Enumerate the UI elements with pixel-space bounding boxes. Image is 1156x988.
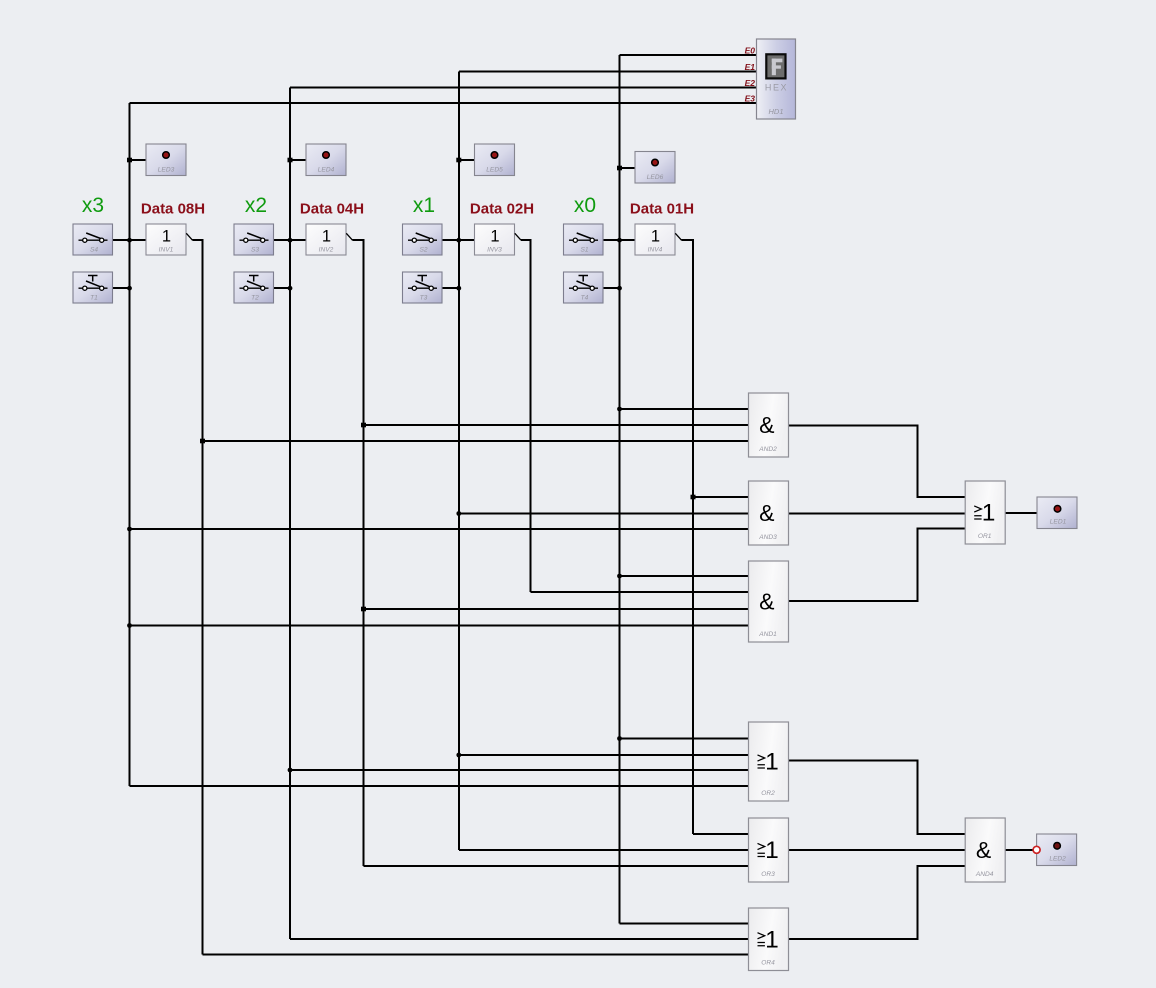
junction junction S4 pin: [127, 238, 132, 243]
wire net E1: [459, 71, 757, 73]
AND gate AND2: [749, 393, 789, 457]
wire x3 to AND1.4: [130, 625, 749, 627]
svg-text:AND4: AND4: [975, 871, 994, 878]
svg-text:LED2: LED2: [1049, 856, 1066, 863]
wire x0 to AND2.1: [620, 408, 749, 410]
wire bus x3: [129, 103, 131, 786]
switch S1: [564, 224, 604, 255]
junction x1/OR2: [456, 753, 461, 758]
wire OR2 out to AND4.1: [789, 761, 966, 835]
svg-text:1: 1: [765, 926, 779, 953]
junction node LED6 tap: [617, 166, 622, 171]
wire net E3: [130, 102, 757, 104]
pin INV2 inverted output: [346, 233, 352, 240]
push button T1: [73, 272, 113, 303]
svg-text:LED5: LED5: [486, 167, 503, 174]
svg-text:INV1: INV1: [159, 247, 174, 254]
wire T1 pin: [113, 287, 130, 289]
svg-text:OR3: OR3: [761, 871, 775, 878]
wire bus x1: [458, 72, 460, 851]
svg-text:OR4: OR4: [761, 960, 775, 967]
svg-text:INV4: INV4: [648, 247, 663, 254]
junction junction S1 pin: [617, 238, 622, 243]
svg-text:Data 01H: Data 01H: [630, 201, 694, 218]
junction junction T2 pin: [288, 286, 293, 291]
wire /x3 to OR4.3: [203, 954, 749, 956]
junction x2/OR2: [288, 768, 293, 773]
LED LED6: [635, 152, 675, 184]
wire x3 to AND3.3: [130, 528, 749, 530]
svg-text:1: 1: [322, 228, 331, 246]
AND gate AND1: [749, 561, 789, 642]
svg-text:LED1: LED1: [1050, 519, 1067, 526]
wire x0 to OR2.1: [620, 738, 749, 740]
svg-text:AND2: AND2: [758, 446, 777, 453]
junction INV1/AND2: [200, 439, 205, 444]
LED LED1: [1037, 497, 1077, 529]
wire OR3 out to AND4.2: [789, 849, 966, 851]
LED LED4: [306, 144, 346, 176]
wire x2 to OR2.3: [290, 769, 749, 771]
junction INV2/AND1: [361, 607, 366, 612]
wire LED6 pin: [620, 167, 636, 169]
OR gate OR4: [749, 908, 789, 971]
wire INV2 output: [353, 240, 364, 866]
wire x1 to OR3.2: [459, 849, 749, 851]
pin INV4 inverted output: [675, 233, 681, 240]
wire /x1 to AND1.2: [531, 591, 749, 593]
wire /x2 to AND1.3: [364, 608, 749, 610]
wire x3 to OR2.4: [130, 785, 749, 787]
junction INV4/AND3: [691, 495, 696, 500]
svg-text:S2: S2: [419, 247, 427, 254]
svg-text:S1: S1: [580, 247, 588, 254]
svg-text:LED3: LED3: [158, 167, 175, 174]
junction x1/AND3: [456, 511, 461, 516]
svg-text:1: 1: [162, 228, 171, 246]
wire AND4 out to LED2: [1005, 849, 1033, 851]
pin INV1 inverted output: [186, 233, 192, 240]
OR gate OR3: [749, 818, 789, 882]
junction INV2/AND2: [361, 423, 366, 428]
wire T2 pin: [274, 287, 291, 289]
junction node LED4 tap: [288, 158, 293, 163]
svg-text:LED6: LED6: [647, 174, 664, 181]
wire /x0 to OR3.1: [693, 833, 749, 835]
wire net E0: [620, 54, 757, 56]
svg-text:E2: E2: [745, 78, 756, 88]
svg-text:AND3: AND3: [758, 534, 777, 541]
svg-text:AND1: AND1: [758, 631, 777, 638]
svg-text:&: &: [759, 412, 774, 438]
svg-text:1: 1: [651, 228, 660, 246]
svg-text:1: 1: [490, 228, 499, 246]
LED LED2: [1037, 834, 1077, 866]
switch S4: [73, 224, 113, 255]
wire S4 to INV1: [113, 239, 147, 241]
wire x0 to AND1.1: [620, 575, 749, 577]
svg-text:INV2: INV2: [319, 247, 334, 254]
junction node LED3 tap: [127, 158, 132, 163]
inverter INV3: [475, 224, 515, 255]
svg-text:1: 1: [765, 749, 779, 776]
wire T4 pin: [603, 287, 620, 289]
push button T4: [564, 272, 604, 303]
wire x2 to OR4.2: [290, 938, 749, 940]
wire /x3 to AND2.3: [203, 440, 749, 442]
svg-text:S4: S4: [90, 247, 98, 254]
wire x1 to OR2.2: [459, 754, 749, 756]
wire x1 to AND3.2: [459, 513, 749, 515]
wire AND2 out to OR1.1: [789, 426, 966, 497]
svg-text:T4: T4: [581, 295, 589, 302]
svg-text:x3: x3: [82, 194, 104, 217]
wire T3 pin: [442, 287, 459, 289]
switch S3: [234, 224, 274, 255]
junction x0/OR2: [617, 736, 622, 741]
wire LED4 pin: [290, 159, 306, 161]
wire x0 to OR4.1: [620, 923, 749, 925]
junction x0/AND2: [617, 407, 622, 412]
svg-text:Data 02H: Data 02H: [470, 201, 534, 218]
wire S1 to INV4: [603, 239, 635, 241]
push button T3: [403, 272, 443, 303]
wire net E2: [290, 87, 757, 89]
wire /x2 to OR3.3: [364, 865, 749, 867]
wire INV1 output: [193, 240, 203, 954]
svg-text:LED4: LED4: [318, 167, 335, 174]
OR gate OR1: [965, 481, 1005, 544]
svg-text:T3: T3: [420, 295, 428, 302]
wire bus x2: [289, 88, 291, 940]
svg-text:x1: x1: [413, 194, 435, 217]
push button T2: [234, 272, 274, 303]
svg-text:Data 08H: Data 08H: [141, 201, 205, 218]
inverter INV2: [306, 224, 346, 255]
svg-text:E3: E3: [745, 93, 756, 103]
junction x0/AND1: [617, 574, 622, 579]
svg-text:E0: E0: [745, 45, 756, 55]
node AND4 output connector: [1033, 846, 1040, 853]
svg-text:HD1: HD1: [768, 107, 783, 116]
svg-text:OR2: OR2: [761, 790, 775, 797]
svg-text:T2: T2: [251, 295, 259, 302]
wire AND3 out to OR1.2: [789, 513, 966, 515]
junction junction T4 pin: [617, 286, 622, 291]
switch S2: [403, 224, 443, 255]
svg-text:&: &: [759, 500, 774, 526]
inverter INV1: [146, 224, 186, 255]
LED LED5: [475, 144, 515, 176]
junction junction S2 pin: [456, 238, 461, 243]
wire bus x0: [619, 55, 621, 924]
AND gate AND3: [749, 481, 789, 545]
wire AND1 out to OR1.3: [789, 529, 966, 602]
wire OR4 out to AND4.3: [789, 866, 966, 939]
svg-text:HEX: HEX: [765, 83, 788, 93]
wire INV3 output: [521, 240, 531, 592]
svg-text:E1: E1: [745, 62, 756, 72]
svg-text:INV3: INV3: [487, 247, 502, 254]
junction junction T1 pin: [127, 286, 132, 291]
wire INV4 output: [682, 240, 694, 834]
junction x3/AND3: [127, 527, 132, 532]
OR gate OR2: [749, 722, 789, 801]
svg-text:1: 1: [982, 500, 996, 527]
inverter INV4: [635, 224, 675, 255]
wire OR1 out to LED1: [1005, 512, 1037, 514]
svg-text:S3: S3: [251, 247, 259, 254]
hex display HD1: [757, 39, 796, 119]
wire /x0 to AND3.1: [693, 496, 749, 498]
wire S2 to INV3: [442, 239, 475, 241]
svg-text:OR1: OR1: [978, 533, 992, 540]
wire S3 to INV2: [274, 239, 307, 241]
LED LED3: [146, 144, 186, 176]
svg-text:&: &: [976, 837, 991, 863]
junction junction T3 pin: [456, 286, 461, 291]
svg-text:T1: T1: [90, 295, 98, 302]
svg-text:&: &: [759, 589, 774, 615]
svg-text:Data 04H: Data 04H: [300, 201, 364, 218]
wire /x2 to AND2.2: [364, 424, 749, 426]
svg-text:x2: x2: [245, 194, 267, 217]
wire LED5 pin: [459, 159, 475, 161]
junction node LED5 tap: [456, 158, 461, 163]
AND gate AND4: [965, 818, 1005, 882]
junction junction S3 pin: [288, 238, 293, 243]
wire LED3 pin: [130, 159, 147, 161]
svg-text:x0: x0: [574, 194, 596, 217]
svg-text:1: 1: [765, 837, 779, 864]
junction x3/AND1: [127, 623, 132, 628]
pin INV3 inverted output: [515, 233, 521, 240]
